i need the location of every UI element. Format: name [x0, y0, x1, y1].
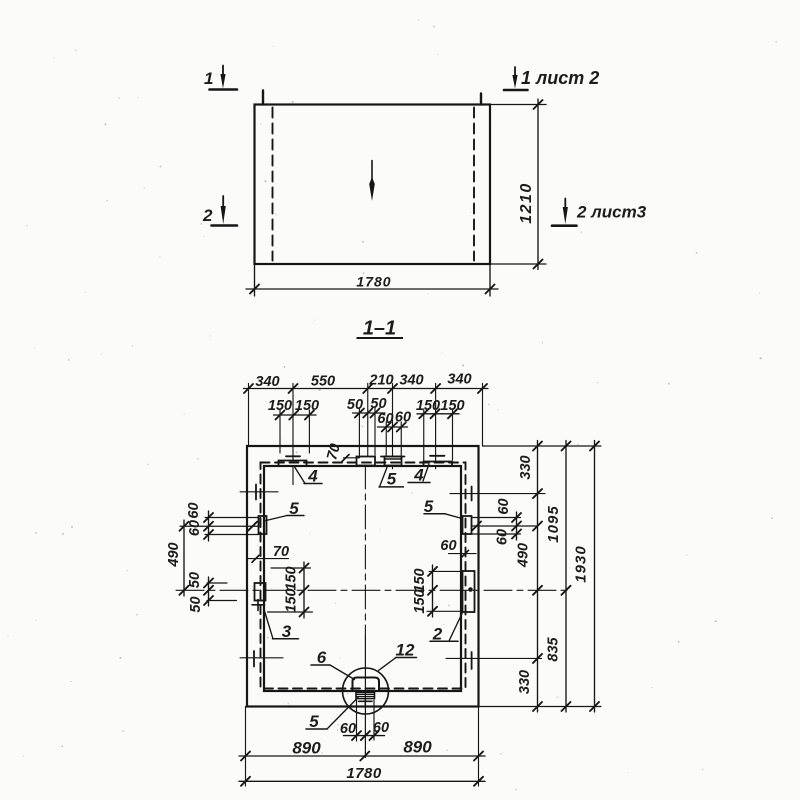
- 70 mark left wall: [248, 555, 289, 562]
- dim row2 right 150/150: [417, 409, 459, 461]
- 60 mark right wall: [449, 550, 477, 557]
- svg-text:60: 60: [373, 720, 389, 736]
- leader 5 right: [424, 514, 462, 519]
- svg-text:1780: 1780: [346, 765, 382, 782]
- svg-text:50: 50: [188, 596, 204, 612]
- dim row2 left 150/150: [274, 410, 317, 453]
- leader 4 right: [408, 464, 430, 483]
- right chain extensions: [480, 446, 601, 707]
- section marker 2: [212, 196, 238, 226]
- svg-text:1: 1: [204, 69, 213, 88]
- plate5L extension lines: [180, 518, 259, 535]
- svg-text:60: 60: [186, 502, 202, 518]
- svg-text:4: 4: [307, 467, 318, 486]
- plate5R extension lines: [472, 518, 538, 535]
- svg-text:50: 50: [370, 396, 386, 412]
- svg-text:150: 150: [412, 589, 428, 613]
- svg-text:330: 330: [517, 670, 533, 694]
- wall mark upper left: [240, 485, 278, 500]
- leader 2: [430, 613, 463, 642]
- svg-text:60: 60: [187, 520, 203, 536]
- bottom 890/890 dim: [239, 707, 485, 787]
- center line horizontal: [176, 589, 571, 591]
- dashed rect: [261, 463, 466, 689]
- svg-text:12: 12: [396, 641, 415, 660]
- svg-text:150: 150: [284, 588, 300, 612]
- svg-text:340: 340: [447, 372, 471, 388]
- anchor cross below detail: [359, 699, 373, 705]
- svg-text:330: 330: [518, 455, 534, 479]
- anchor cross below plate 3: [252, 600, 265, 611]
- outer rect: [247, 446, 479, 707]
- svg-text:60: 60: [340, 721, 356, 737]
- svg-text:150: 150: [440, 398, 464, 414]
- leader 3: [265, 611, 299, 639]
- dim 1210 right: [490, 99, 546, 270]
- bottom 1780 dim: [239, 777, 485, 786]
- svg-text:50: 50: [347, 397, 363, 413]
- dim 1780 top view: [246, 264, 498, 296]
- svg-text:150: 150: [416, 398, 440, 414]
- left 50/50 dim line: [204, 577, 237, 606]
- svg-text:340: 340: [255, 374, 279, 390]
- leader 12: [379, 658, 417, 671]
- svg-text:60: 60: [496, 498, 512, 514]
- marker 1 sheet 2: [504, 67, 528, 90]
- right dim chain inner: [533, 441, 542, 713]
- svg-text:550: 550: [311, 374, 335, 390]
- svg-text:490: 490: [166, 542, 182, 567]
- section marker 1: [210, 66, 238, 90]
- 70 slash mark top: [342, 455, 360, 462]
- plate 5 left wall: [259, 516, 267, 534]
- plate 12 striped in wall: [356, 693, 375, 699]
- leader 5 mid: [379, 466, 404, 487]
- top tick right: [480, 94, 482, 105]
- marker 2 sheet 3: [552, 199, 577, 226]
- right dim chain middle: [562, 441, 571, 713]
- leader 5 left: [264, 516, 304, 522]
- wall mark upper right / ext 330: [450, 487, 545, 501]
- dashed edge line left: [272, 108, 274, 261]
- left inner 150/150 dim (plate3): [268, 562, 313, 618]
- detail circle bottom: [343, 668, 389, 714]
- leader 4 left: [294, 466, 322, 484]
- svg-text:2: 2: [202, 206, 213, 225]
- svg-text:1930: 1930: [573, 545, 590, 582]
- plate mid left of center: [357, 457, 376, 466]
- svg-text:835: 835: [546, 636, 562, 661]
- svg-text:1210: 1210: [518, 182, 535, 224]
- bottom 60/60 dim: [344, 700, 385, 741]
- left 490 dim line: [180, 520, 189, 596]
- svg-text:890: 890: [403, 738, 432, 757]
- right 60/60 dim line: [512, 512, 521, 540]
- plate 6 rounded: [353, 678, 380, 692]
- plate 3 left wall: [255, 583, 266, 601]
- plate 4 right on top edge: [424, 456, 453, 466]
- svg-text:150: 150: [295, 398, 319, 414]
- svg-text:1095: 1095: [545, 505, 562, 542]
- svg-text:5: 5: [387, 470, 397, 489]
- svg-text:210: 210: [368, 373, 393, 389]
- svg-text:490: 490: [516, 543, 532, 568]
- svg-text:60: 60: [440, 538, 456, 554]
- svg-text:2: 2: [432, 625, 443, 644]
- svg-text:60: 60: [495, 529, 511, 545]
- inner opening rect: [264, 466, 461, 691]
- center line vertical: [364, 465, 366, 636]
- row1 extension lines: [249, 384, 483, 485]
- svg-text:50: 50: [187, 572, 203, 588]
- svg-text:4: 4: [413, 466, 424, 485]
- svg-text:5: 5: [424, 497, 434, 516]
- dim row2 mid 50/50: [353, 408, 386, 456]
- svg-text:5: 5: [309, 712, 319, 731]
- center arrow: [369, 161, 375, 202]
- plate 2 stud circle: [468, 587, 473, 592]
- svg-text:150: 150: [268, 398, 292, 414]
- plate 4 left on top edge: [279, 456, 307, 466]
- svg-text:150: 150: [284, 566, 300, 590]
- plate 2 right wall: [463, 571, 475, 612]
- plate 5 right wall: [463, 516, 472, 534]
- svg-text:60: 60: [377, 411, 393, 427]
- top tick left: [262, 91, 264, 105]
- svg-text:1 лист 2: 1 лист 2: [521, 68, 599, 88]
- right dim chain outer: [590, 441, 599, 713]
- svg-text:890: 890: [292, 739, 321, 758]
- wall mark lower right / ext 330: [446, 652, 542, 669]
- svg-text:5: 5: [289, 499, 299, 518]
- svg-text:70: 70: [273, 544, 289, 560]
- top dim row1 line: [244, 384, 489, 393]
- dashed edge line right: [473, 108, 475, 261]
- svg-text:3: 3: [282, 622, 292, 641]
- plate mid striped: [381, 457, 405, 466]
- svg-text:340: 340: [399, 373, 423, 389]
- wall mark lower left: [240, 651, 283, 667]
- leader 6: [311, 665, 355, 680]
- svg-text:60: 60: [395, 410, 411, 426]
- panel outline: [255, 105, 491, 265]
- svg-text:6: 6: [317, 648, 327, 667]
- svg-text:150: 150: [412, 568, 428, 592]
- svg-text:1–1: 1–1: [363, 318, 396, 340]
- svg-text:1780: 1780: [356, 274, 391, 290]
- right 150/150 dim (plate2): [427, 565, 463, 617]
- svg-text:2 лист3: 2 лист3: [576, 203, 647, 222]
- leader 5 bottom: [306, 698, 358, 730]
- left 60/60 dim line: [204, 511, 213, 541]
- dim row3 mid 60/60: [378, 422, 408, 456]
